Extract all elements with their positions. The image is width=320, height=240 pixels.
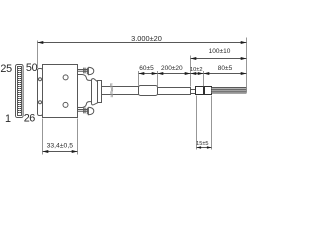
dimension 100±10 (190, 56, 192, 87)
dimension 80±5 (204, 72, 210, 75)
extension line at block divider (203, 71, 205, 86)
extension line at sleeve end (157, 71, 159, 87)
crimp block 2 (205, 87, 212, 95)
strain relief boot (92, 79, 98, 105)
side view mounting flange (38, 69, 43, 116)
jack screw bottom: washer ticks (84, 108, 85, 114)
jack screw top: head (87, 67, 94, 75)
chained dimension line (139, 73, 247, 75)
svg-text:60±5: 60±5 (139, 65, 154, 72)
flange hole lower (39, 101, 42, 104)
svg-text:33,4±0,5: 33,4±0,5 (47, 142, 74, 149)
dimension 60±5 (139, 72, 145, 75)
svg-text:1: 1 (5, 113, 11, 125)
svg-text:80±5: 80±5 (218, 65, 233, 72)
svg-text:10±2: 10±2 (190, 67, 203, 73)
jack screw bottom: head (87, 107, 94, 115)
crimp block 1 (196, 87, 204, 95)
cable (first run) (102, 87, 139, 95)
body screw hole lower (63, 102, 68, 107)
svg-text:3.000±20: 3.000±20 (131, 34, 162, 43)
svg-text:26: 26 (24, 113, 36, 125)
svg-text:15±5: 15±5 (196, 141, 208, 147)
shrink tube (200 section) (158, 88, 191, 95)
dimension 15±5 (196, 96, 198, 150)
svg-text:50: 50 (26, 62, 38, 74)
dimension 200±20 (158, 72, 164, 75)
dimension 3.000±20 (37, 41, 39, 69)
svg-text:100±10: 100±10 (209, 48, 231, 55)
jack screw top: shaft (78, 70, 89, 72)
svg-text:25: 25 (0, 63, 12, 75)
side view connector body (43, 65, 78, 118)
dimension 33,4±0,5 (42, 119, 44, 155)
flange hole upper (39, 78, 42, 81)
svg-text:200±20: 200±20 (161, 65, 183, 72)
backshell top wing (78, 75, 92, 81)
pin field (50 contacts, two columns) (18, 69, 21, 113)
bare cable gap (191, 90, 196, 94)
moulded sleeve (60 section) (139, 86, 158, 96)
connector front view outer shell (16, 65, 24, 118)
extension line at sleeve start (138, 71, 140, 86)
body screw hole upper (63, 75, 68, 80)
cable break squiggle (111, 83, 112, 97)
stripped wire bundle (212, 87, 247, 93)
jack screw bottom: shaft (78, 110, 89, 112)
connector front view inner slot (18, 67, 22, 116)
dimension 10±2 (191, 72, 197, 75)
backshell bottom wing (78, 102, 92, 108)
boot collar (98, 81, 102, 103)
jack screw top: washer ticks (84, 68, 85, 74)
